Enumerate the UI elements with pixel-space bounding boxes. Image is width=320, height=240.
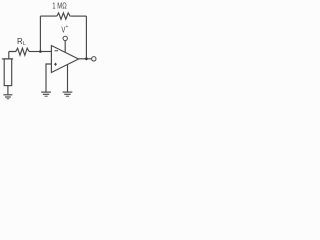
wire output (79, 58, 92, 60)
wire sensor bottom lead (7, 86, 9, 95)
wire V+ supply stub (64, 41, 66, 53)
terminal V+ circle (63, 36, 67, 40)
resistor R_L zigzag (9, 48, 29, 55)
wire non-inverting input (46, 64, 51, 92)
resistor R_F 1 MΩ zigzag (57, 13, 71, 19)
sensor electrode cap bar (2, 58, 13, 60)
op-amp plus input marker (54, 63, 57, 66)
node junction dot inverting input (39, 50, 42, 53)
wire inverting input (40, 51, 51, 53)
wire feedback left vertical (node A bus) (39, 16, 41, 51)
sensor electrode body rectangle (4, 59, 12, 86)
svg-text:1 MΩ: 1 MΩ (52, 1, 67, 11)
ground (sensor) (3, 95, 12, 99)
ground (non-inverting input) (41, 92, 51, 96)
svg-text:+: + (66, 24, 68, 30)
node junction dot output (85, 57, 88, 60)
wire V- pin to ground (67, 65, 69, 92)
wire R_L to inverting node (29, 51, 40, 53)
wire feedback top right segment (71, 15, 86, 17)
wire feedback right vertical to output node (85, 16, 87, 59)
svg-text:R: R (17, 36, 23, 46)
svg-text:L: L (23, 41, 27, 47)
wire feedback top left segment (40, 15, 56, 17)
terminal output circle (92, 57, 96, 61)
ground (op-amp V-) (63, 92, 73, 96)
op-amp minus input marker (55, 50, 58, 52)
wire sensor top lead (8, 52, 10, 59)
op-amp U1 triangle (51, 46, 78, 73)
